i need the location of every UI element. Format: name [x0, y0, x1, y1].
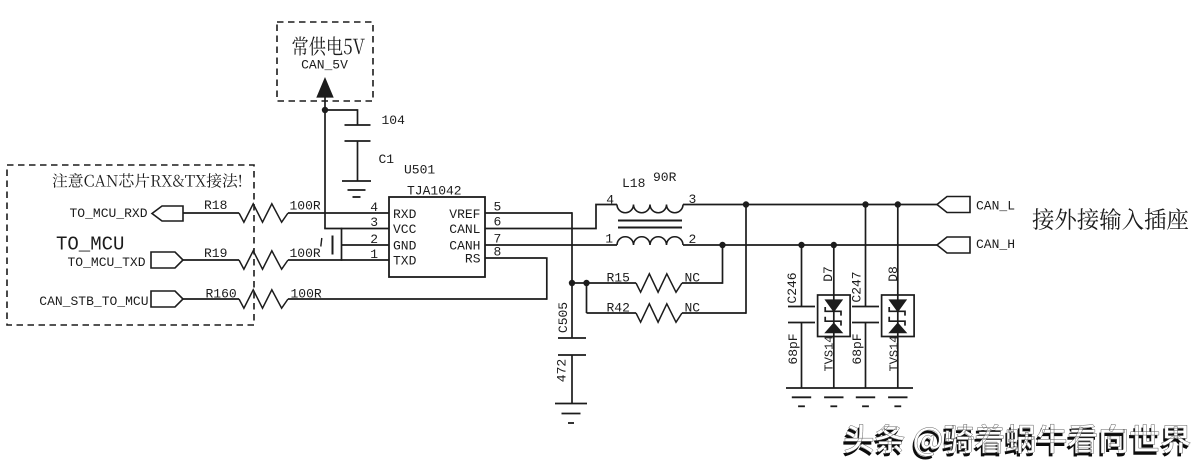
connector CAN_H: [937, 237, 970, 253]
pin label RXD: [393, 207, 417, 222]
ground below C1: [342, 181, 371, 197]
wire TXD to R19: [183, 259, 239, 261]
label R15: [607, 271, 630, 286]
svg-text:C505: C505: [556, 302, 571, 333]
svg-text:68pF: 68pF: [786, 333, 801, 364]
label NC row R15: [685, 271, 701, 286]
wire R18 to pin4: [288, 212, 389, 214]
capacitor C246: [788, 307, 815, 323]
svg-text:100R: 100R: [290, 246, 321, 261]
label TVS14 left vertical: [823, 335, 837, 371]
label D7 vertical: [821, 266, 836, 282]
label 68pF left vertical: [786, 333, 801, 364]
svg-text:RXD: RXD: [393, 207, 417, 222]
wire D8 through: [897, 205, 899, 389]
label C505 vertical: [556, 302, 571, 333]
svg-text:RS: RS: [465, 252, 481, 267]
stub bar row2: [332, 236, 334, 255]
resistor R160: [239, 290, 288, 308]
TVS diode D7: [818, 295, 851, 337]
pin label CANL: [449, 222, 480, 237]
svg-text:1: 1: [605, 232, 613, 247]
junction dot CANL/D8: [895, 201, 901, 207]
label 100R row3: [291, 287, 322, 302]
label 常供电5V: [292, 36, 364, 55]
svg-text:CAN_L: CAN_L: [976, 199, 1015, 214]
svg-text:R42: R42: [607, 301, 630, 316]
pin number 7: [494, 232, 502, 247]
svg-text:L18: L18: [622, 176, 645, 191]
label C1: [379, 152, 395, 167]
pin number 2: [370, 232, 378, 247]
capacitor C247: [852, 307, 879, 323]
pin label CANH: [449, 239, 480, 254]
wire CANH pin7: [485, 244, 617, 246]
ground bus bar: [786, 387, 913, 389]
junction dot CANH/D7: [831, 242, 837, 248]
capacitor C1: [345, 125, 371, 141]
svg-text:C1: C1: [379, 152, 395, 167]
label R42: [607, 301, 630, 316]
svg-text:CAN_5V: CAN_5V: [301, 58, 348, 73]
label C247 vertical: [850, 271, 865, 302]
svg-text:TXD: TXD: [393, 254, 417, 269]
wire C246 bottom: [801, 323, 803, 389]
wire CAN_H net: [683, 244, 937, 246]
watermark 头条 @骑着蜗牛看向世界: [843, 424, 1190, 459]
svg-text:R19: R19: [204, 246, 227, 261]
label 472 vertical: [555, 359, 570, 382]
port CAN_STB_TO_MCU: [151, 291, 183, 307]
svg-text:TVS14: TVS14: [888, 335, 902, 371]
label L18 pin3: [689, 192, 697, 207]
junction dot CANH/C246: [798, 242, 804, 248]
label 68pF right vertical: [850, 333, 865, 364]
svg-text:CAN_STB_TO_MCU: CAN_STB_TO_MCU: [39, 294, 148, 309]
note dashed box: [7, 165, 254, 325]
note text 注意CAN芯片RX&TX接法!: [53, 173, 242, 188]
svg-text:CAN_H: CAN_H: [976, 237, 1015, 252]
wire node to R15: [572, 282, 636, 284]
label L18 pin2: [689, 232, 697, 247]
TVS diode D8: [882, 295, 915, 337]
tick mark row2: [321, 238, 322, 247]
svg-text:TVS14: TVS14: [823, 335, 837, 371]
label U501: [404, 163, 435, 178]
choke L18 top winding: [617, 205, 683, 213]
resistor R42: [636, 304, 682, 322]
junction dot VREF/R15/C505: [569, 280, 575, 286]
svg-text:68pF: 68pF: [850, 333, 865, 364]
wire R160 to RS pin8: [288, 257, 547, 300]
label TO_MCU big: [56, 234, 124, 256]
svg-text:TO_MCU_RXD: TO_MCU_RXD: [69, 206, 147, 221]
ground bars bank: [792, 397, 908, 406]
junction dot CANL/C247: [862, 201, 868, 207]
wire R42 branch: [587, 282, 637, 313]
pin label VCC: [393, 222, 417, 237]
label L18 pin4: [606, 193, 614, 208]
label R18: [204, 198, 227, 213]
wire CANL pin6: [485, 205, 617, 229]
label 90R: [653, 170, 677, 185]
IC U501 TJA1042 box: [389, 197, 485, 277]
label 接外接输入插座: [1033, 208, 1188, 230]
wire C247 bottom: [865, 323, 867, 389]
resistor R18: [239, 204, 288, 222]
label CAN_5V: [301, 58, 348, 73]
svg-text:R15: R15: [607, 271, 630, 286]
svg-text:6: 6: [494, 215, 502, 230]
wire R15 to CANH net: [682, 244, 723, 284]
svg-text:8: 8: [494, 245, 502, 260]
label R160: [206, 287, 237, 302]
wire D7 through: [833, 245, 835, 388]
wire C1 to ground: [357, 141, 359, 181]
svg-text:90R: 90R: [653, 170, 677, 185]
port TO_MCU_RXD: [152, 206, 183, 221]
wire 5V vertical: [324, 97, 326, 229]
svg-text:CANL: CANL: [449, 222, 480, 237]
label 100R row2: [290, 246, 321, 261]
label C246 vertical: [785, 272, 800, 303]
power arrow CAN_5V: [317, 79, 333, 98]
wire CAN_L net: [683, 204, 937, 206]
junction dot CANH/R15: [719, 242, 725, 248]
svg-text:U501: U501: [404, 163, 435, 178]
label CAN_L: [976, 199, 1015, 214]
wire RXD to R18: [183, 212, 239, 214]
svg-text:R18: R18: [204, 198, 227, 213]
label TO_MCU_RXD: [69, 206, 147, 221]
label CAN_H: [976, 237, 1015, 252]
svg-text:D8: D8: [886, 266, 901, 282]
svg-text:1: 1: [370, 247, 378, 262]
pin label VREF: [449, 207, 480, 222]
resistor R19: [239, 251, 288, 269]
wire C505 to ground: [571, 355, 573, 404]
pin number 4: [370, 200, 378, 215]
choke L18 bottom winding: [617, 237, 683, 245]
label 100R row1: [290, 199, 321, 214]
pin number 6: [494, 215, 502, 230]
power supply dashed box: [277, 22, 373, 101]
wire GND pin2: [342, 244, 390, 246]
wire STB to R160: [183, 298, 239, 300]
svg-text:C247: C247: [850, 271, 865, 302]
junction dot CANL/R42: [743, 201, 749, 207]
svg-text:R160: R160: [206, 287, 237, 302]
svg-text:C246: C246: [785, 272, 800, 303]
wire C247 top: [865, 205, 867, 307]
pin number 1: [370, 247, 378, 262]
svg-text:472: 472: [555, 359, 570, 382]
wire C246 top: [801, 245, 803, 307]
ground below C505: [555, 404, 587, 424]
wire GND link vertical: [341, 228, 343, 261]
svg-text:100R: 100R: [290, 199, 321, 214]
junction dot 5V/C1 branch: [322, 107, 328, 113]
pin number 5: [494, 200, 502, 215]
svg-text:GND: GND: [393, 239, 417, 254]
wire R42 to CANL net: [682, 204, 746, 314]
pin label TXD: [393, 254, 417, 269]
label TO_MCU_TXD: [67, 255, 145, 270]
label L18: [622, 176, 645, 191]
label TJA1042: [407, 184, 462, 199]
pin number 3: [370, 215, 378, 230]
pin label GND: [393, 239, 417, 254]
resistor R15: [636, 274, 682, 292]
capacitor C505: [558, 338, 586, 355]
wire VREF pin5 to C505 node: [485, 212, 572, 338]
svg-text:4: 4: [370, 200, 378, 215]
pin label RS: [465, 252, 481, 267]
label TVS14 right vertical: [888, 335, 902, 371]
label R19: [204, 246, 227, 261]
label NC row R42: [685, 301, 701, 316]
connector CAN_L: [937, 197, 970, 213]
junction dot R42 branch: [583, 280, 589, 286]
wire R19 to pin1: [288, 259, 389, 261]
wire C1 branch: [325, 109, 358, 125]
pin number 8: [494, 245, 502, 260]
svg-text:TO_MCU_TXD: TO_MCU_TXD: [67, 255, 145, 270]
wire VCC pin3: [324, 228, 389, 230]
svg-text:TJA1042: TJA1042: [407, 184, 462, 199]
label D8 vertical: [886, 266, 901, 282]
label CAN_STB_TO_MCU: [39, 294, 148, 309]
label 104: [382, 113, 406, 128]
label L18 pin1: [605, 232, 613, 247]
svg-text:4: 4: [606, 193, 614, 208]
svg-text:VREF: VREF: [449, 207, 480, 222]
svg-text:VCC: VCC: [393, 222, 417, 237]
svg-text:TO_MCU: TO_MCU: [56, 234, 124, 256]
port TO_MCU_TXD: [151, 252, 183, 268]
choke L18 core: [618, 221, 682, 228]
svg-text:104: 104: [382, 113, 406, 128]
